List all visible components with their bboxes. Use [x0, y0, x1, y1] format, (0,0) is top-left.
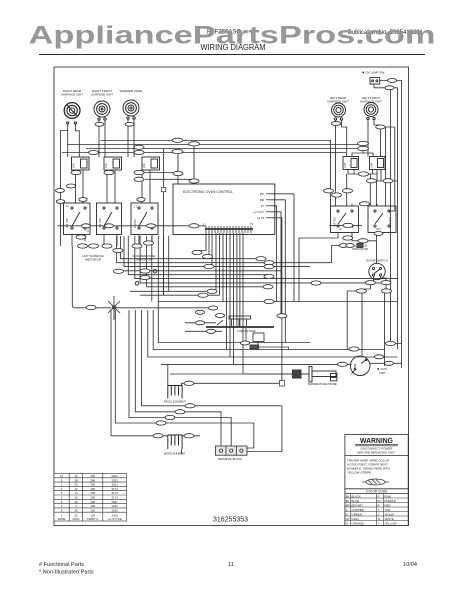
connector oval: [388, 79, 397, 83]
svg-text:LIM: LIM: [343, 163, 347, 167]
svg-text:TERMINAL BLOCK: TERMINAL BLOCK: [218, 457, 242, 461]
connector oval: [134, 145, 144, 149]
infinite switch S2 (right front): [97, 203, 122, 235]
svg-text:ELECTRONIC OVEN CONTROL: ELECTRONIC OVEN CONTROL: [183, 190, 233, 194]
svg-text:✱ OV LAMP SW: ✱ OV LAMP SW: [362, 71, 384, 75]
connector oval: [189, 142, 200, 146]
connector ovals: [56, 79, 397, 438]
svg-text:L1: L1: [66, 205, 69, 208]
svg-text:2 3 1: 2 3 1: [134, 206, 140, 209]
connector oval: [346, 244, 354, 248]
wire group: low voltage cluster: [185, 316, 288, 350]
wire group: broil element connections: [161, 350, 402, 386]
connector oval: [374, 355, 383, 359]
wire group: EOC right stubs: [271, 194, 294, 383]
svg-text:V: V: [378, 512, 380, 516]
wire gauge table: [54, 474, 127, 522]
wire group: middle ladder: [117, 236, 398, 302]
connector oval: [189, 179, 199, 183]
connector oval: [86, 305, 96, 309]
svg-text:BK: BK: [346, 494, 350, 498]
title WIRING DIAGRAM: [201, 43, 266, 52]
wire group: top right supply from oven lamp switch: [374, 81, 402, 369]
connector oval: [382, 289, 392, 293]
connector oval: [67, 184, 76, 188]
connector oval: [338, 362, 348, 366]
svg-text:PURPLE: PURPLE: [385, 499, 397, 503]
connector oval: [89, 150, 99, 154]
connector oval: [78, 244, 88, 248]
connector oval: [358, 141, 369, 145]
connector oval: [185, 404, 195, 408]
wire group: left switch drops: [58, 226, 207, 308]
limiter L4 (left rear): [343, 157, 359, 170]
connector oval: [367, 179, 377, 183]
connector oval: [192, 250, 202, 254]
connector oval: [156, 421, 166, 425]
connector oval: [89, 244, 99, 248]
coil left front surface unit: [364, 103, 378, 120]
EOC right side pin labels: [253, 192, 271, 220]
indicator lamp 1: [153, 269, 157, 273]
svg-text:BLUE: BLUE: [352, 499, 360, 503]
footer page number: [228, 562, 234, 568]
connector oval: [358, 146, 369, 150]
limiter L2 (right front): [104, 157, 122, 170]
svg-text:BR: BR: [260, 198, 265, 202]
connector oval: [360, 202, 370, 206]
wire group: right coil leads: [336, 120, 381, 207]
connector oval: [331, 122, 341, 126]
connector oval: [165, 415, 175, 419]
connector oval: [134, 170, 144, 174]
wire group: door switch connections: [332, 88, 402, 356]
svg-text:LIM: LIM: [104, 164, 108, 168]
svg-text:SURFACE UNIT: SURFACE UNIT: [61, 93, 83, 97]
connector oval: [144, 241, 154, 245]
svg-text:UL STYLE: UL STYLE: [108, 517, 122, 521]
connector oval: [263, 285, 273, 289]
svg-text:COLOR CODE: COLOR CODE: [366, 490, 387, 494]
connector oval: [339, 244, 347, 248]
connector oval: [184, 434, 194, 438]
svg-text:LF: LF: [339, 228, 342, 231]
connector oval: [343, 236, 353, 240]
svg-text:BROIL ELEMENT: BROIL ELEMENT: [164, 400, 187, 404]
svg-text:OV1: OV1: [376, 228, 381, 231]
connector oval: [204, 264, 214, 268]
connector oval: [146, 224, 155, 228]
wire group: left coil drops: [61, 119, 151, 246]
broil element: [164, 386, 187, 404]
warmer switch S3: [131, 203, 158, 235]
svg-text:R: R: [378, 503, 380, 507]
svg-text:YELLOW STRIPE.: YELLOW STRIPE.: [347, 471, 372, 475]
svg-text:TEMPERATURE PROBE: TEMPERATURE PROBE: [307, 382, 336, 386]
svg-text:BAKE ELEMENT: BAKE ELEMENT: [164, 452, 186, 456]
svg-text:BK: BK: [260, 192, 264, 196]
terminal block: [215, 446, 247, 461]
svg-text:LIM: LIM: [72, 164, 76, 168]
svg-text:W: W: [378, 517, 381, 521]
watermark: [29, 23, 436, 50]
svg-text:LIM: LIM: [370, 163, 374, 167]
part number 316255353: [213, 515, 248, 524]
infinite switch S1 (right rear): [64, 203, 91, 235]
connector oval: [175, 410, 185, 414]
wire group: bake element connections: [164, 436, 200, 454]
svg-text:1015: 1015: [111, 508, 118, 512]
connector oval: [264, 274, 274, 278]
svg-text:AWG: AWG: [72, 517, 80, 521]
limiter L3 (warmer): [142, 157, 160, 170]
connector oval: [374, 232, 383, 236]
wire group: limiter outputs right: [144, 127, 398, 211]
connector oval: [256, 257, 266, 261]
svg-text:YELLOW: YELLOW: [385, 521, 397, 525]
connector oval: [134, 150, 144, 154]
svg-text:COPPER: COPPER: [352, 508, 364, 512]
svg-text:105: 105: [90, 508, 95, 512]
svg-text:VIOLET: VIOLET: [385, 512, 396, 516]
connector oval: [332, 193, 342, 197]
surface indicator label (right): [352, 243, 369, 251]
connector oval: [172, 138, 183, 142]
connector oval: [384, 361, 393, 365]
svg-text:WIRING DIAGRAM: WIRING DIAGRAM: [201, 43, 266, 52]
connector oval: [102, 244, 112, 248]
svg-text:* Non-Illustrated Parts: * Non-Illustrated Parts: [39, 570, 94, 576]
warning box: [345, 435, 408, 526]
svg-text:WARMER ZONE: WARMER ZONE: [120, 89, 143, 93]
connector oval: [189, 224, 199, 228]
connector oval: [311, 281, 321, 285]
connector oval: [71, 170, 81, 174]
surface indicator block: [357, 243, 363, 247]
limiter L1 (right rear): [72, 157, 90, 170]
EOC terminal strip comb: [203, 222, 253, 233]
connector oval: [184, 381, 194, 385]
connector oval: [113, 248, 123, 252]
svg-text:INF SW: INF SW: [98, 218, 102, 228]
connector oval: [264, 299, 274, 303]
connector oval: [140, 275, 150, 279]
footer date: [403, 562, 417, 568]
svg-text:H2: H2: [86, 230, 90, 233]
connector oval: [173, 171, 183, 175]
color code table text: [346, 494, 397, 525]
svg-text:WHITE: WHITE: [385, 517, 394, 521]
connector oval: [198, 293, 208, 297]
svg-text:11: 11: [228, 562, 234, 568]
header rule: [39, 54, 425, 56]
coil left rear surface unit: [332, 103, 346, 120]
svg-text:BL: BL: [346, 499, 350, 503]
svg-text:WZSW: WZSW: [133, 219, 137, 228]
connector oval: [343, 223, 353, 227]
connector oval: [381, 281, 391, 285]
warmer zone indicator label: [133, 254, 156, 262]
svg-text:WARNING: WARNING: [360, 436, 393, 445]
wire group: horizontal buses upper: [62, 141, 358, 237]
indicator lamp 2: [135, 282, 139, 286]
svg-text:RED: RED: [385, 503, 391, 507]
connector oval: [376, 125, 386, 129]
svg-text:INDICATOR: INDICATOR: [136, 258, 153, 262]
svg-text:PU: PU: [378, 499, 382, 503]
svg-text:15: 15: [250, 222, 253, 226]
svg-text:BLACK: BLACK: [352, 494, 362, 498]
limiter L5 (left front): [370, 157, 386, 170]
connector oval: [203, 254, 213, 258]
color code table: [345, 494, 408, 526]
connector oval: [56, 189, 65, 193]
svg-text:LIM: LIM: [142, 164, 146, 168]
svg-text:SURFACE UNIT: SURFACE UNIT: [91, 93, 113, 97]
connector oval: [79, 198, 87, 202]
svg-text:INDICATOR: INDICATOR: [85, 258, 102, 262]
svg-text:316255353: 316255353: [213, 515, 248, 524]
surface unit coil labels (left group): [61, 89, 142, 97]
connector oval: [104, 170, 114, 174]
bake element: [164, 435, 186, 456]
connector oval: [385, 86, 394, 90]
connector oval: [132, 244, 142, 248]
infinite switch S4 (left rear): [331, 206, 359, 233]
svg-text:P: P: [378, 494, 380, 498]
connector oval: [56, 200, 64, 204]
coil right rear surface unit: [64, 103, 80, 125]
connector oval: [134, 177, 144, 181]
connector oval: [95, 122, 104, 126]
svg-text:BR: BR: [346, 503, 350, 507]
low voltage cluster ovals: [195, 306, 249, 345]
svg-text:LMP: LMP: [379, 371, 385, 375]
svg-text:Y: Y: [378, 521, 380, 525]
connector oval: [358, 239, 368, 243]
svg-text:T: T: [378, 508, 380, 512]
connector oval: [140, 269, 150, 273]
svg-text:L2 IN: L2 IN: [257, 216, 264, 220]
svg-text:16: 16: [74, 508, 78, 512]
ov lamp sw label: [362, 71, 384, 75]
connector oval: [349, 347, 359, 351]
svg-text:DOOR SWITCH: DOOR SWITCH: [366, 259, 388, 263]
oven lamp: [350, 356, 386, 376]
svg-text:BEFORE SERVICING UNIT.: BEFORE SERVICING UNIT.: [358, 450, 396, 454]
svg-text:LOW VOLTAGE: LOW VOLTAGE: [237, 329, 256, 333]
surface unit coil labels (right group): [327, 96, 382, 104]
header publication number: [348, 30, 424, 36]
connector oval: [343, 189, 353, 193]
connector oval: [104, 224, 113, 228]
connector oval: [125, 122, 134, 126]
connector oval: [277, 314, 287, 318]
door switch: [366, 259, 388, 280]
diagram border: [54, 67, 409, 526]
connector oval: [386, 341, 396, 345]
connector oval: [383, 179, 393, 183]
svg-text:GRAY: GRAY: [352, 517, 360, 521]
svg-text:SURFACE UNIT: SURFACE UNIT: [360, 100, 382, 104]
svg-text:PINK: PINK: [385, 494, 392, 498]
connector oval: [114, 269, 124, 273]
connector oval: [137, 198, 145, 202]
svg-text:INF SW: INF SW: [65, 218, 69, 228]
connector oval: [264, 265, 274, 269]
warning box text: [347, 436, 398, 494]
connector oval: [324, 189, 334, 193]
connector oval: [76, 235, 86, 239]
connector oval: [207, 289, 217, 293]
svg-text:TEMP°C: TEMP°C: [87, 517, 100, 521]
connector oval: [359, 172, 369, 176]
infinite switch S5 (left front): [368, 206, 396, 233]
svg-text:GREEN: GREEN: [352, 512, 362, 516]
connector oval: [81, 224, 90, 228]
svg-text:# Functional Parts: # Functional Parts: [39, 562, 84, 568]
coil right front surface unit: [94, 101, 110, 120]
wire gauge table text: [58, 474, 122, 521]
connector oval: [357, 289, 367, 293]
footer functional parts note: [39, 562, 94, 576]
svg-text:C: C: [346, 508, 348, 512]
ov lamp switch box: [370, 78, 380, 84]
svg-text:10/04: 10/04: [403, 562, 417, 568]
svg-text:ORANGE: ORANGE: [352, 521, 365, 525]
connector oval: [264, 261, 274, 265]
temperature probe: [293, 367, 337, 386]
connector oval: [172, 149, 183, 153]
svg-text:BROWN: BROWN: [352, 503, 363, 507]
svg-text:L2 OUT: L2 OUT: [253, 210, 264, 214]
wire group: EOC comb drops: [199, 233, 293, 374]
svg-text:TAN: TAN: [385, 508, 391, 512]
junction square node: [279, 381, 284, 387]
wire group: left vertical bundle to bottom: [111, 302, 310, 452]
wire group: indicator crossing node: [108, 296, 208, 320]
electronic oven control box U1: [173, 184, 275, 235]
connector oval: [153, 434, 163, 438]
header model number: [207, 30, 241, 36]
warning tracer wire example symbol: [362, 479, 389, 485]
connector oval: [365, 281, 375, 285]
wire group: switch interconnects right: [299, 204, 381, 302]
svg-text:GY: GY: [346, 517, 350, 521]
coil warmer zone: [123, 100, 139, 119]
hot surface indicator label: [82, 254, 103, 262]
junction square node 2: [161, 187, 165, 191]
svg-text:LT: LT: [261, 204, 264, 208]
svg-text:WIRE: WIRE: [58, 517, 66, 521]
